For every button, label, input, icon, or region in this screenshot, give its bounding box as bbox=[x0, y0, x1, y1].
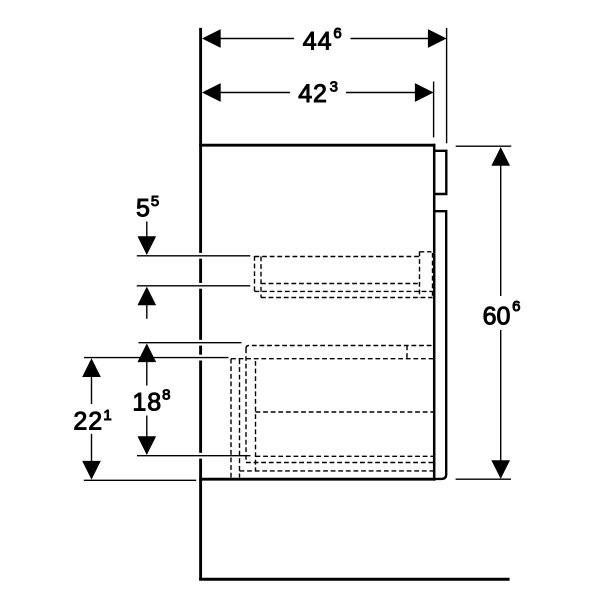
pointer line bottom 18.8 bbox=[137, 455, 251, 457]
arrow right 42.3 bbox=[415, 83, 434, 102]
svg-text:5: 5 bbox=[136, 195, 150, 223]
svg-text:6: 6 bbox=[512, 298, 520, 315]
dim line 44.6 bbox=[219, 38, 294, 40]
svg-text:8: 8 bbox=[162, 387, 170, 404]
lower drawer hidden outline bbox=[231, 346, 434, 478]
floor bbox=[199, 578, 509, 581]
arrow shaft lower 22.1 bbox=[91, 434, 93, 462]
svg-text:1: 1 bbox=[103, 407, 111, 424]
dimension 60.6 bbox=[456, 146, 512, 479]
arrow up 22.1 bbox=[82, 358, 101, 377]
upper drawer hidden outline bbox=[255, 252, 433, 298]
arrow down 5.5 bbox=[137, 236, 156, 255]
svg-text:6: 6 bbox=[333, 25, 341, 42]
pointer line bottom 5.5 bbox=[137, 285, 251, 287]
arrow shaft upper 18.8 bbox=[146, 362, 148, 386]
arrow up 60.6 bbox=[491, 147, 510, 166]
extension line top 60.6 bbox=[456, 145, 512, 147]
wall bbox=[199, 28, 202, 581]
svg-text:3: 3 bbox=[330, 79, 338, 96]
svg-text:60: 60 bbox=[483, 302, 511, 330]
dimension 18.8 bbox=[137, 343, 251, 456]
extension line right 42.3 bbox=[433, 82, 435, 138]
lower side panel strip bbox=[434, 211, 446, 479]
arrow down 60.6 bbox=[491, 460, 510, 479]
arrow shaft upper 5.5 bbox=[146, 222, 148, 238]
pointer line top 22.1 bbox=[84, 357, 229, 359]
arrow down 18.8 bbox=[137, 436, 156, 455]
svg-text:42: 42 bbox=[298, 80, 328, 108]
cabinet bottom bbox=[199, 478, 435, 481]
wall gaps at pointer line crossings bbox=[198, 253, 204, 459]
extension line right 44.6 bbox=[446, 28, 448, 143]
upper mounting tab bbox=[434, 151, 446, 194]
arrow up 18.8 bbox=[137, 343, 156, 362]
arrow shaft lower 5.5 bbox=[146, 305, 148, 319]
extension line bottom 60.6 bbox=[456, 478, 511, 480]
dimension 44.6 bbox=[219, 28, 447, 143]
dim line 60.6 bbox=[500, 165, 502, 296]
dim line 42.3 bbox=[219, 92, 290, 94]
cabinet top bbox=[199, 144, 435, 147]
dimension 5.5 bbox=[137, 222, 251, 319]
arrow shaft lower 18.8 bbox=[146, 416, 148, 438]
arrow left 44.6 bbox=[202, 29, 221, 48]
arrow up 5.5 bbox=[137, 287, 156, 306]
dimension 22.1 bbox=[84, 358, 229, 481]
arrow right 44.6 bbox=[428, 29, 447, 48]
svg-text:5: 5 bbox=[151, 193, 159, 210]
pointer line top 5.5 bbox=[137, 255, 251, 257]
pointer line top 18.8 bbox=[139, 342, 242, 344]
svg-text:44: 44 bbox=[303, 28, 333, 56]
arrow left 42.3 bbox=[202, 83, 221, 102]
arrow down 22.1 bbox=[82, 461, 101, 480]
svg-text:22: 22 bbox=[73, 408, 103, 436]
svg-text:18: 18 bbox=[132, 389, 162, 417]
pointer line bottom 22.1 bbox=[84, 479, 196, 481]
arrow shaft upper 22.1 bbox=[91, 377, 93, 405]
cabinet front panel bbox=[433, 144, 436, 481]
dimension 42.3 bbox=[219, 82, 434, 138]
